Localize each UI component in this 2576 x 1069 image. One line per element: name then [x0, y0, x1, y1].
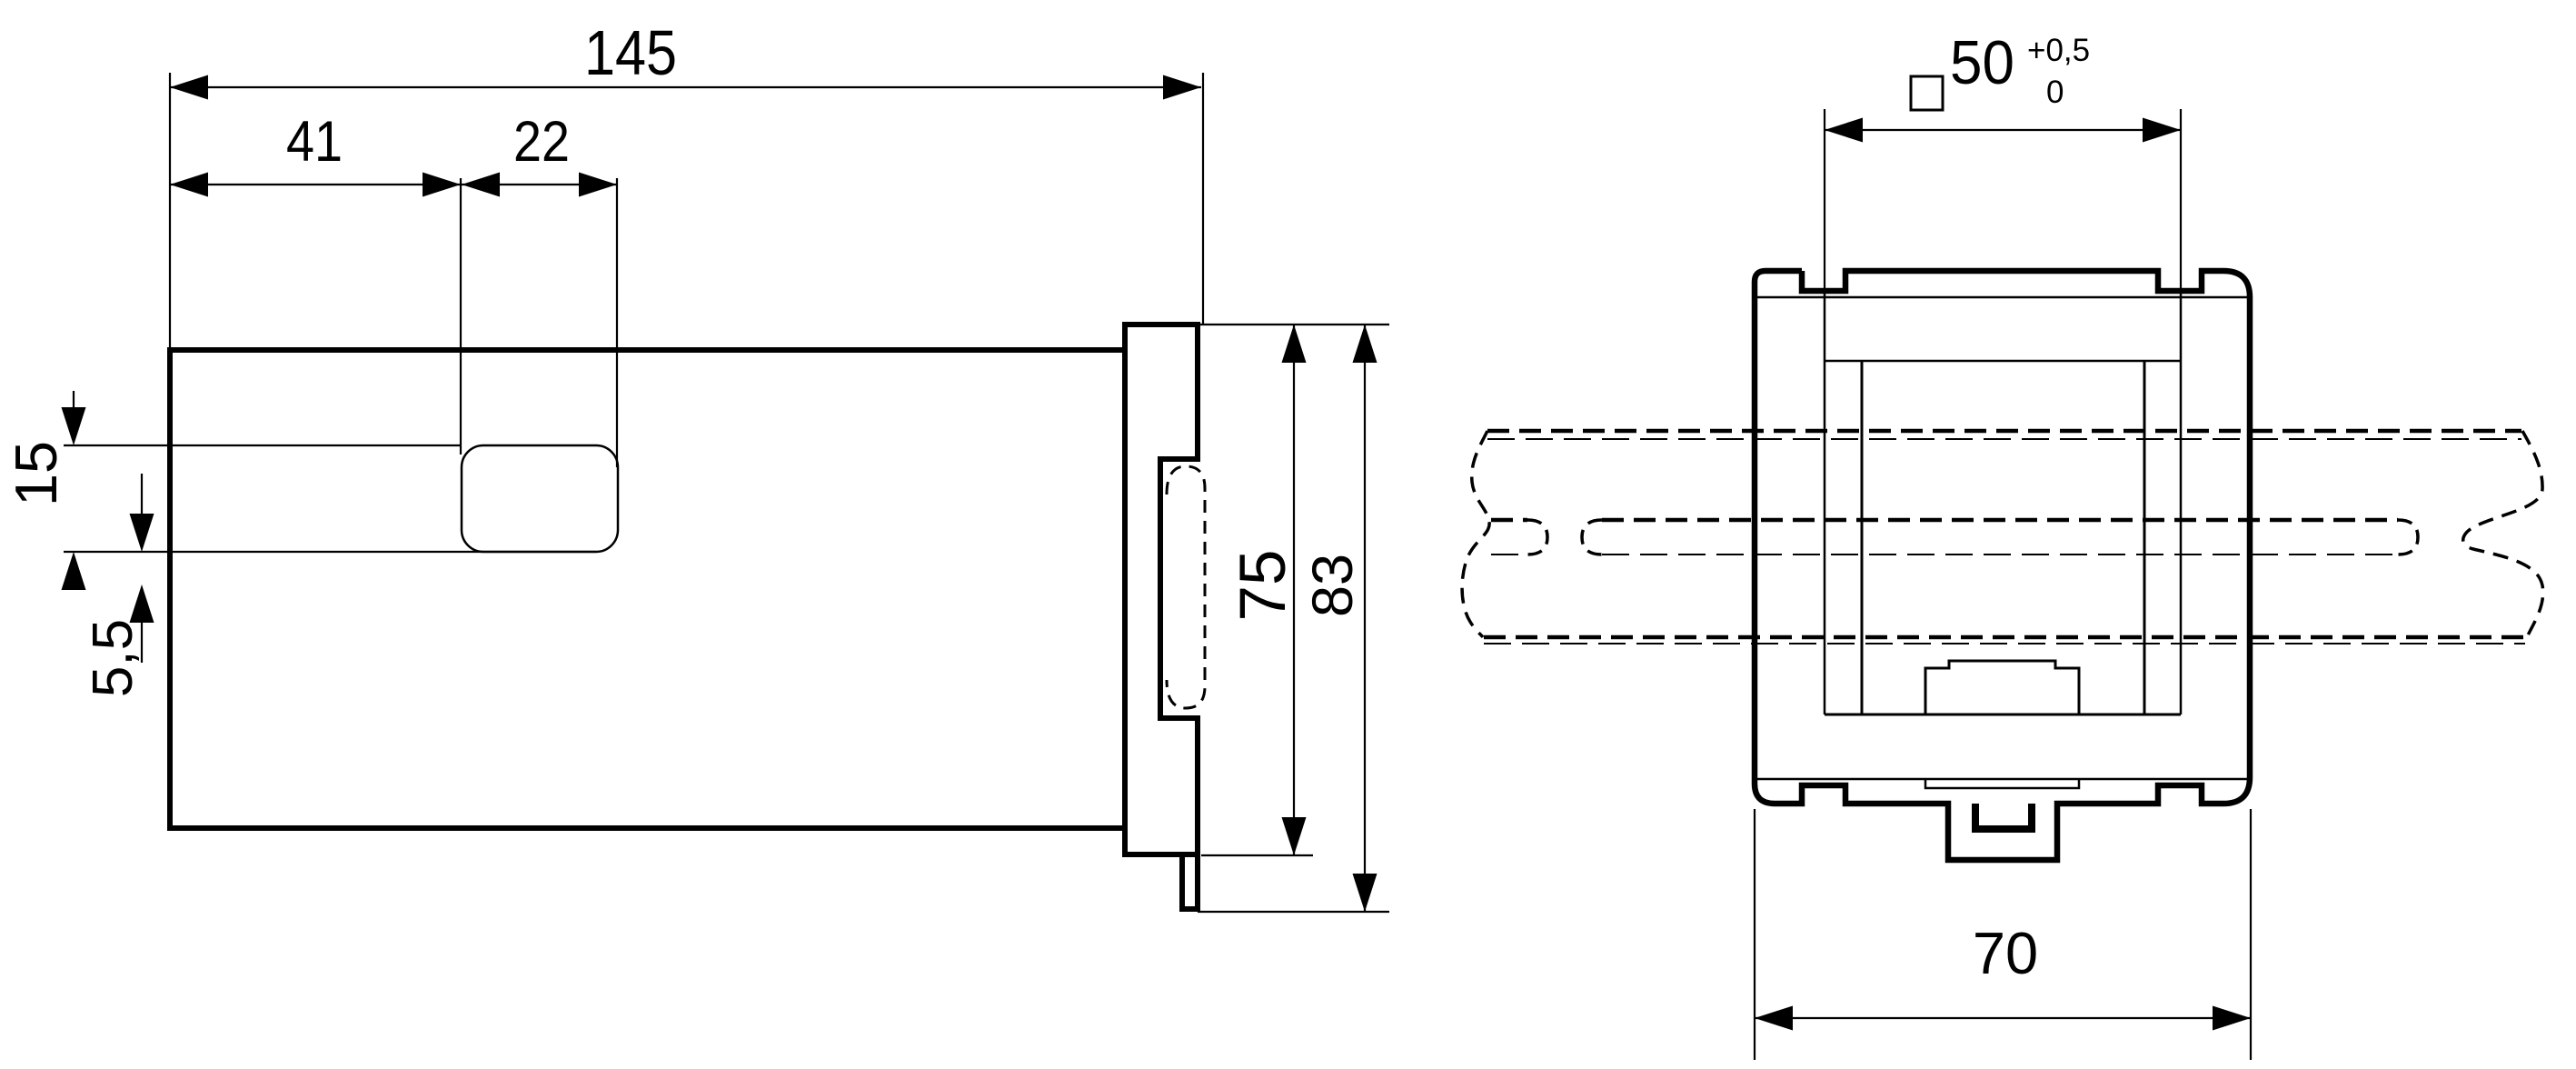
svg-text:145: 145 [584, 17, 677, 88]
svg-text:5,5: 5,5 [82, 619, 144, 697]
svg-text:75: 75 [1228, 550, 1299, 622]
svg-text:0: 0 [2046, 75, 2064, 110]
svg-text:83: 83 [1301, 554, 1365, 617]
svg-text:70: 70 [1973, 920, 2038, 986]
svg-text:15: 15 [3, 441, 69, 506]
svg-text:+0,5: +0,5 [2027, 33, 2090, 68]
svg-text:41: 41 [286, 110, 343, 174]
svg-text:22: 22 [513, 110, 570, 174]
svg-text:50: 50 [1950, 28, 2014, 97]
